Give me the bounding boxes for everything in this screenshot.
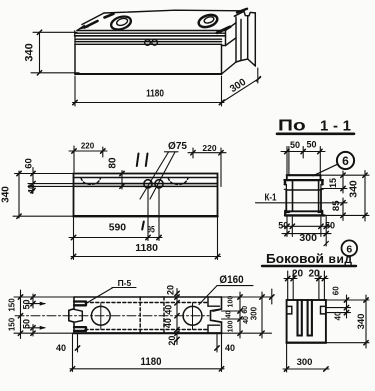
- left dims: [20, 290, 22, 339]
- svg-text:60: 60: [332, 286, 341, 295]
- oval hole 2: [197, 13, 219, 30]
- plates P-5 left: [74, 302, 86, 306]
- svg-text:1180: 1180: [146, 88, 164, 99]
- back-left notch wedge: [105, 14, 114, 18]
- svg-text:50: 50: [22, 319, 32, 329]
- back-right notch wedge: [237, 9, 247, 13]
- right dims: [321, 174, 370, 176]
- svg-text:220: 220: [81, 142, 95, 151]
- svg-text:50: 50: [306, 140, 316, 150]
- svg-text:40: 40: [334, 311, 343, 320]
- svg-text:340: 340: [24, 43, 36, 61]
- right dims: [326, 299, 369, 301]
- slots: [298, 300, 302, 336]
- bottom dims: [72, 333, 74, 371]
- outline: [74, 296, 222, 298]
- dim 80: [121, 171, 123, 190]
- svg-text:85: 85: [331, 200, 342, 211]
- svg-text:80: 80: [108, 157, 119, 169]
- bottom dim 300: [286, 343, 288, 372]
- svg-text:340: 340: [356, 314, 367, 330]
- svg-text:40: 40: [56, 343, 66, 353]
- svg-text:100: 100: [227, 296, 234, 308]
- svg-text:20: 20: [167, 336, 177, 346]
- svg-text:50: 50: [278, 221, 288, 231]
- top face left edge: [77, 13, 104, 31]
- svg-text:20: 20: [292, 269, 304, 280]
- svg-text:50: 50: [22, 299, 32, 309]
- two small circles on edge: [145, 40, 151, 46]
- svg-text:590: 590: [109, 223, 127, 234]
- dim 1180 bottom: [74, 76, 76, 106]
- svg-text:Боковой: Боковой: [266, 251, 324, 266]
- section mark 1 bottom: [142, 222, 144, 230]
- svg-text:6: 6: [342, 154, 349, 168]
- svg-text:40: 40: [226, 311, 233, 319]
- svg-text:По: По: [278, 116, 306, 134]
- dim 300 diagonal: [257, 68, 259, 83]
- svg-text:300: 300: [299, 232, 317, 244]
- dim 1180: [217, 216, 219, 259]
- bottom dims: [286, 215, 288, 236]
- callout 6: [337, 152, 354, 169]
- small holes: [144, 180, 152, 188]
- cavity walls and ceiling: [292, 181, 294, 211]
- section marks 1 1: [137, 154, 139, 167]
- right end cap: [235, 17, 237, 62]
- outline: [287, 300, 326, 343]
- svg-text:1180: 1180: [135, 242, 158, 254]
- svg-text:П-5: П-5: [118, 278, 132, 288]
- svg-text:20: 20: [308, 269, 320, 280]
- dim 220 right top: [220, 148, 222, 187]
- top face back edge: [104, 10, 244, 13]
- dim 340 left: [33, 31, 77, 33]
- svg-text:100: 100: [227, 321, 234, 333]
- svg-text:Ø160: Ø160: [219, 275, 243, 287]
- oval hole 1: [109, 14, 132, 32]
- hidden dashed lines: [85, 302, 208, 304]
- dashed arcs (hidden channels): [81, 178, 101, 184]
- svg-text:40: 40: [225, 343, 235, 353]
- svg-text:1180: 1180: [140, 357, 161, 369]
- top dims 20 20: [284, 278, 297, 280]
- front-right notch wedge: [217, 27, 230, 33]
- svg-text:50: 50: [290, 140, 300, 150]
- left groove lines: [74, 309, 82, 322]
- svg-text:220: 220: [202, 143, 216, 153]
- edge notches: [287, 306, 292, 314]
- svg-text:340: 340: [1, 186, 12, 203]
- svg-text:300: 300: [250, 306, 259, 320]
- svg-text:20: 20: [165, 285, 175, 295]
- center line: [15, 315, 209, 317]
- svg-text:50: 50: [325, 221, 335, 231]
- svg-text:Ø75: Ø75: [168, 141, 187, 152]
- svg-text:40: 40: [163, 318, 173, 328]
- top dims 50 50: [281, 151, 325, 153]
- svg-text:95: 95: [147, 225, 155, 235]
- svg-text:40: 40: [27, 184, 37, 194]
- svg-text:1-1: 1-1: [320, 118, 351, 135]
- left side dims: [15, 173, 74, 175]
- right-end pockets: [208, 297, 220, 306]
- body front face: [74, 44, 76, 74]
- slab right edge: [225, 31, 227, 46]
- svg-text:300: 300: [297, 357, 313, 368]
- svg-text:К-1: К-1: [265, 192, 277, 203]
- mid vertical dim chain: [176, 289, 178, 345]
- section outline: [287, 174, 321, 176]
- right notch inner: [213, 309, 222, 322]
- svg-text:60: 60: [24, 158, 35, 169]
- svg-text:340: 340: [347, 180, 359, 198]
- bottom dims 590 / 95: [73, 216, 75, 259]
- front-left notch wedge: [85, 21, 98, 28]
- leaders from O75: [165, 151, 179, 153]
- circles: [91, 306, 110, 325]
- svg-text:40: 40: [164, 305, 174, 315]
- svg-text:15: 15: [328, 178, 338, 188]
- svg-text:150: 150: [7, 317, 16, 331]
- slab band lines: [77, 30, 226, 32]
- K-1 leader: [256, 202, 348, 204]
- svg-text:6: 6: [346, 243, 352, 255]
- leaders: [112, 287, 136, 289]
- dim 220 left top: [73, 146, 75, 172]
- svg-text:150: 150: [7, 298, 16, 312]
- right dims: [222, 296, 272, 298]
- svg-text:60: 60: [242, 306, 249, 314]
